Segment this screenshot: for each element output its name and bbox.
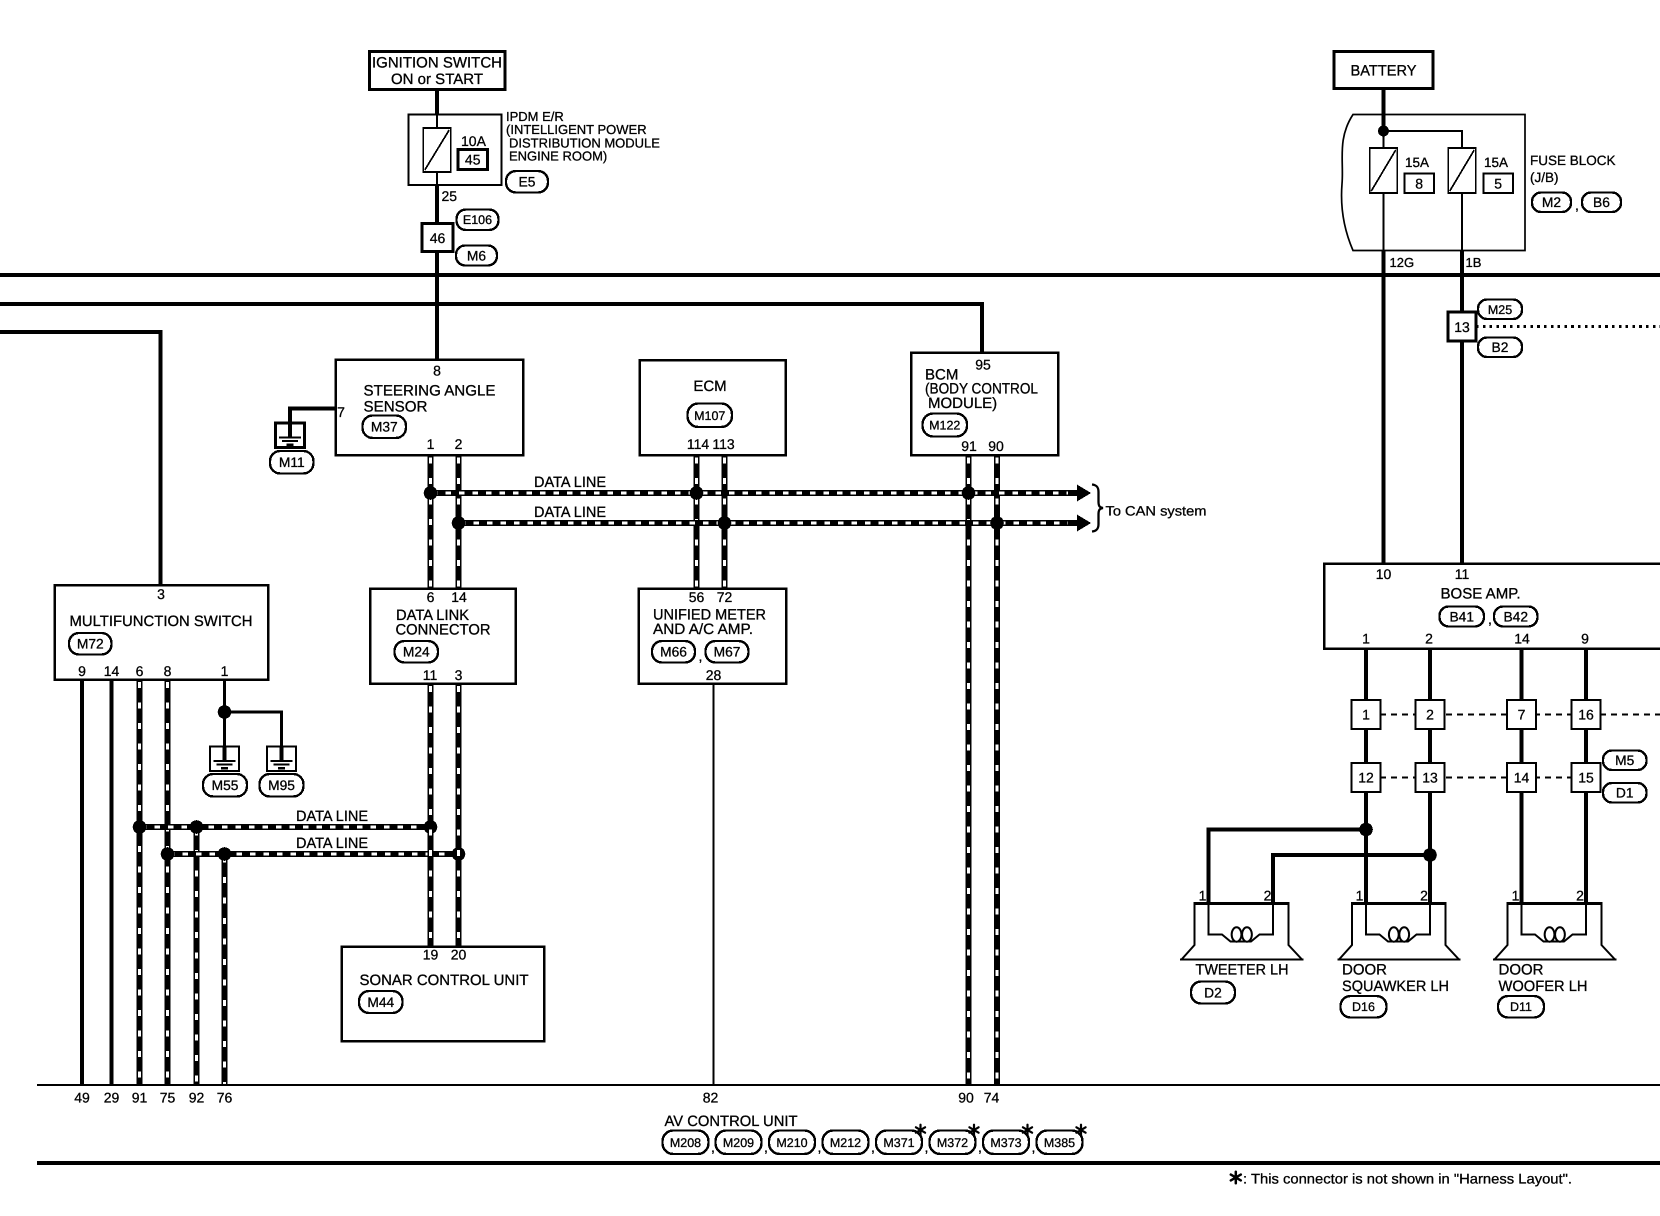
svg-text:M212: M212: [830, 1136, 861, 1150]
node: junction data line 1 / sensor pin 1: [424, 486, 438, 500]
svg-text:AND A/C AMP.: AND A/C AMP.: [653, 621, 753, 638]
wire: connector 12 vertical: [1364, 729, 1368, 763]
svg-text:90: 90: [988, 438, 1004, 454]
svg-text:To CAN system: To CAN system: [1106, 504, 1207, 519]
svg-text:8: 8: [164, 663, 172, 679]
wire (CAN): MFS pin 6 down to AV unit pin 91: [136, 680, 142, 1086]
wire (CAN): branch down to AV unit pin 92: [193, 827, 199, 1085]
svg-text:14: 14: [104, 663, 120, 679]
wire: BOSE pin 9 to connector 16: [1584, 649, 1588, 701]
svg-text:5: 5: [1494, 176, 1502, 192]
AV control unit top edge: [37, 1084, 1660, 1086]
wire: connector 14 vertical: [1519, 729, 1523, 763]
svg-text:2: 2: [1426, 707, 1434, 723]
connector B6: [1582, 193, 1621, 213]
connector M210: [769, 1131, 815, 1155]
wire (CAN) ECM pin 114 down: [693, 455, 699, 589]
wire (CAN) data line 2: [456, 520, 1078, 526]
svg-text:1: 1: [427, 436, 435, 452]
svg-text:,: ,: [818, 1139, 822, 1155]
svg-text:16: 16: [1578, 707, 1594, 723]
svg-text:14: 14: [1514, 631, 1530, 647]
wire: connector 15 to woofer pin 2: [1584, 792, 1588, 903]
svg-text:ENGINE ROOM): ENGINE ROOM): [509, 149, 607, 164]
node: data line 4 / pin 8 wire: [161, 847, 175, 861]
svg-text:DOOR: DOOR: [1499, 962, 1544, 979]
connector box 13: [1448, 312, 1476, 341]
svg-text:1: 1: [1512, 888, 1520, 904]
connector M2: [1532, 193, 1571, 213]
connector M212: [823, 1131, 869, 1155]
svg-text:CONNECTOR: CONNECTOR: [396, 622, 491, 639]
arrow to CAN system (line 2): [1077, 515, 1091, 532]
wire: fuse block 1B to BOSE AMP pin 11: [1460, 251, 1464, 565]
svg-text:1: 1: [1362, 631, 1370, 647]
svg-text:DATA LINE: DATA LINE: [534, 474, 606, 491]
svg-text:49: 49: [74, 1090, 90, 1106]
data link connector box M24: [370, 589, 516, 684]
svg-text:12G: 12G: [1390, 255, 1415, 270]
wire: MFS pin 1 to grounds: [223, 680, 226, 747]
svg-text:6: 6: [136, 663, 144, 679]
connector M372 (starred): [930, 1131, 976, 1155]
connector box 7 (row 1): [1507, 700, 1536, 729]
wire: MFS pin 9 to AV unit pin 49: [80, 680, 84, 1086]
BOSE AMP box B41/B42: [1324, 564, 1660, 649]
svg-text:15A: 15A: [1405, 155, 1429, 170]
multifunction switch box M72: [55, 585, 269, 680]
connector box 13 (row 2): [1416, 763, 1445, 792]
svg-text:M24: M24: [403, 645, 430, 660]
wire (thin) fuse 8 to pin 12G: [1383, 193, 1385, 251]
svg-text:M44: M44: [367, 995, 394, 1010]
svg-text:10: 10: [1376, 566, 1392, 582]
svg-text:DATA LINE: DATA LINE: [296, 835, 368, 852]
wire: BOSE pin 1 to connector 1: [1364, 649, 1368, 701]
svg-text:,: ,: [925, 1139, 929, 1155]
footnote: [1235, 1172, 1238, 1184]
svg-text:3: 3: [157, 586, 165, 602]
wire: connector 46 down to steering angle sensor pin 8: [435, 252, 439, 361]
connector box 2 (row 1): [1416, 700, 1445, 729]
ground M55: [210, 747, 239, 772]
svg-text:BATTERY: BATTERY: [1351, 63, 1417, 80]
connector M371 (starred): [876, 1131, 922, 1155]
svg-text:15A: 15A: [1484, 155, 1508, 170]
unified meter and A/C amp box M66/M67: [639, 589, 787, 684]
svg-text:TWEETER LH: TWEETER LH: [1196, 962, 1289, 979]
fuse block (J/B) outline with torn left edge: [1342, 115, 1525, 251]
svg-text:D16: D16: [1352, 1000, 1375, 1014]
connector M5: [1603, 751, 1647, 771]
svg-text:M210: M210: [776, 1136, 807, 1150]
wire (CAN) data line 1: [428, 490, 1078, 496]
wire: power feed bus to BCM pin 95: [0, 304, 982, 354]
svg-text:M11: M11: [279, 455, 305, 470]
svg-text:M371: M371: [883, 1136, 914, 1150]
wire: battery to fuse block: [1381, 89, 1385, 132]
node: tweeter pin 2 branch: [1423, 848, 1437, 862]
node: tweeter pin 1 branch: [1359, 823, 1373, 837]
svg-text:12: 12: [1358, 770, 1374, 786]
wire (CAN) BCM pin 91 down to AV unit pin 90: [965, 455, 971, 1085]
svg-text:74: 74: [984, 1090, 1000, 1106]
node: junction data line 2 / ECM pin 113: [718, 516, 732, 530]
svg-text:,: ,: [764, 1139, 768, 1155]
svg-text:BOSE AMP.: BOSE AMP.: [1441, 586, 1521, 603]
node: data line 4 / DLC pin 3 wire: [452, 847, 466, 861]
wire: IPDM pin 25 down to connector 46: [435, 185, 439, 224]
wire: connector 12 to tweeter branch / squawker pin 1: [1364, 792, 1368, 903]
wire: connector 15 vertical: [1584, 729, 1588, 763]
svg-text:DATA LINE: DATA LINE: [534, 504, 606, 521]
svg-text:D2: D2: [1204, 986, 1222, 1001]
node: data line 3 / pin 6 wire: [133, 820, 147, 834]
connector box 16 (row 1): [1572, 700, 1601, 729]
connector M208: [663, 1131, 709, 1155]
svg-text:91: 91: [961, 438, 977, 454]
svg-text:15: 15: [1578, 770, 1594, 786]
wire: fuse block 12G to BOSE AMP pin 10: [1381, 251, 1385, 565]
wire (thin) fuse 5 to pin 1B: [1461, 193, 1463, 251]
node: junction data line 2 / sensor pin 2: [452, 516, 466, 530]
svg-text:19: 19: [423, 947, 439, 963]
connector M373 (starred): [983, 1131, 1029, 1155]
svg-text:45: 45: [465, 152, 481, 168]
svg-text:SENSOR: SENSOR: [364, 399, 428, 416]
svg-text:,: ,: [871, 1139, 875, 1155]
wire: BOSE pin 2 to connector 2: [1428, 649, 1432, 701]
wire: unified meter pin 28 to AV unit pin 82: [712, 684, 714, 1086]
svg-text:13: 13: [1422, 770, 1438, 786]
svg-text:M122: M122: [929, 419, 960, 433]
wire (CAN): MFS pin 8 down to AV unit pin 75: [164, 680, 170, 1086]
connector E106: [457, 210, 499, 231]
svg-text:2: 2: [1576, 888, 1584, 904]
wire (thin) through IPDM fuse: [436, 115, 438, 186]
connector box 12 (row 2): [1352, 763, 1381, 792]
svg-text:1: 1: [1199, 888, 1207, 904]
svg-text:B2: B2: [1492, 340, 1509, 355]
svg-text:ON or START: ON or START: [391, 71, 483, 88]
svg-text:14: 14: [451, 589, 467, 605]
fuse 15A #5: [1448, 148, 1475, 193]
connector M385 (starred): [1037, 1131, 1083, 1155]
wire (CAN) data line 4: [165, 851, 461, 857]
svg-text:82: 82: [703, 1090, 719, 1106]
svg-text:6: 6: [427, 589, 435, 605]
connector box 15 (row 2): [1572, 763, 1601, 792]
ECM box M107: [640, 360, 786, 455]
wire (CAN) ECM pin 113 down: [721, 455, 727, 589]
svg-text:E106: E106: [463, 213, 492, 227]
connector M6: [456, 246, 497, 266]
wire (CAN) data line 3: [137, 824, 433, 830]
svg-text:MULTIFUNCTION SWITCH: MULTIFUNCTION SWITCH: [70, 613, 253, 630]
svg-text:M373: M373: [990, 1136, 1021, 1150]
ground M11: [275, 423, 304, 448]
wire: sensor pin 7 to ground: [290, 409, 336, 425]
svg-text:B41: B41: [1449, 610, 1474, 625]
node: data line 4 / pin 76 branch: [218, 847, 232, 861]
svg-text:DATA LINE: DATA LINE: [296, 808, 368, 825]
dashed tie line, connector row 1: [1380, 714, 1660, 716]
wire: ignition power bus (horizontal, full width): [0, 273, 1660, 277]
svg-text:76: 76: [217, 1090, 233, 1106]
wire (thin) to fuse 15A #8: [1383, 131, 1385, 148]
wire (CAN): DLC pin 3 down to sonar pin 20: [455, 684, 461, 947]
svg-text:B6: B6: [1593, 195, 1610, 210]
steering angle sensor box M37: [336, 360, 524, 456]
svg-text:90: 90: [958, 1090, 974, 1106]
node: ground junction: [218, 705, 232, 719]
svg-text:M107: M107: [694, 409, 725, 423]
wire: connector 14 to woofer pin 1: [1519, 792, 1523, 903]
node: data line 3 / pin 92 branch: [190, 820, 204, 834]
svg-text:3: 3: [455, 667, 463, 683]
svg-text:1: 1: [1356, 888, 1364, 904]
svg-text:11: 11: [1455, 566, 1470, 582]
IPDM E/R box: [409, 115, 502, 186]
svg-text:11: 11: [423, 667, 438, 683]
svg-text:20: 20: [451, 947, 467, 963]
dotted tie line from connector 13: [1476, 325, 1660, 328]
svg-text:M67: M67: [714, 645, 741, 660]
svg-text:M66: M66: [660, 645, 687, 660]
svg-text:2: 2: [1264, 888, 1272, 904]
svg-text:28: 28: [706, 667, 722, 683]
svg-text:2: 2: [1425, 631, 1433, 647]
connector D1: [1603, 783, 1647, 803]
wire: connector 13 vertical: [1428, 729, 1432, 763]
svg-text:STEERING ANGLE: STEERING ANGLE: [364, 383, 496, 400]
dashed tie line, connector row 2: [1380, 776, 1572, 778]
svg-text:1B: 1B: [1466, 255, 1482, 270]
svg-text:M95: M95: [268, 778, 295, 793]
wire: branch to tweeter pin 1: [1209, 830, 1367, 904]
svg-text:D1: D1: [1616, 786, 1634, 801]
connector B2: [1478, 338, 1522, 358]
wire: connector 13 to tweeter branch / squawker pin 2: [1428, 792, 1432, 903]
svg-text:M72: M72: [77, 637, 104, 652]
svg-text:M5: M5: [1615, 753, 1634, 768]
svg-text:7: 7: [337, 404, 345, 420]
svg-text:14: 14: [1514, 770, 1530, 786]
node: junction data line 1 / BCM pin 91: [962, 486, 976, 500]
wire (CAN) sensor pin 2 down: [455, 455, 461, 589]
connector E5: [506, 171, 548, 193]
connector M209: [716, 1131, 762, 1155]
wire (CAN): branch down to AV unit pin 76: [221, 854, 227, 1085]
node: junction data line 2 / BCM pin 90: [990, 516, 1004, 530]
wire: branch to tweeter pin 2: [1273, 855, 1430, 903]
svg-text:95: 95: [975, 357, 991, 373]
svg-text:,: ,: [1575, 197, 1579, 213]
BCM box M122: [911, 353, 1058, 456]
wire (CAN) sensor pin 1 down: [427, 455, 433, 589]
node: data line 3 / DLC pin 11 wire: [424, 820, 438, 834]
svg-text:MODULE): MODULE): [928, 395, 997, 412]
connector box 1 (row 1): [1352, 700, 1381, 729]
connector box 46: [422, 224, 453, 252]
ignition switch box: [370, 52, 506, 90]
svg-text:91: 91: [132, 1090, 148, 1106]
svg-text:M6: M6: [467, 249, 486, 264]
svg-text:FUSE BLOCK: FUSE BLOCK: [1530, 153, 1616, 168]
svg-text:114: 114: [687, 436, 710, 452]
svg-text:E5: E5: [519, 175, 536, 190]
connector box 14 (row 2): [1507, 763, 1536, 792]
wire (thin) branch to fuse 15A #5: [1384, 131, 1463, 148]
svg-text:9: 9: [1581, 631, 1589, 647]
svg-text:25: 25: [442, 188, 458, 204]
wire: MFS pin 14 to AV unit pin 29: [109, 680, 113, 1086]
node: junction data line 1 / ECM pin 114: [690, 486, 704, 500]
svg-text:46: 46: [430, 230, 446, 246]
svg-text:8: 8: [1415, 176, 1423, 192]
svg-text:10A: 10A: [461, 133, 487, 149]
svg-text:AV CONTROL UNIT: AV CONTROL UNIT: [665, 1113, 798, 1130]
svg-text:M208: M208: [670, 1136, 701, 1150]
svg-text:,: ,: [978, 1139, 982, 1155]
svg-text:: This connector is not shown: : This connector is not shown in "Harnes…: [1243, 1171, 1572, 1187]
svg-text:M209: M209: [723, 1136, 754, 1150]
node: battery feed junction: [1378, 126, 1389, 137]
brace to CAN system: [1092, 485, 1103, 532]
svg-text:1: 1: [221, 663, 229, 679]
svg-text:7: 7: [1518, 707, 1526, 723]
svg-text:92: 92: [189, 1090, 205, 1106]
sonar control unit box M44: [342, 947, 545, 1042]
wire (CAN) BCM pin 90 down to AV unit pin 74: [994, 455, 1000, 1085]
svg-text:56: 56: [689, 589, 705, 605]
arrow to CAN system (line 1): [1077, 485, 1091, 502]
AV control unit bottom edge: [37, 1161, 1660, 1165]
svg-text:75: 75: [160, 1090, 176, 1106]
svg-text:M385: M385: [1044, 1136, 1075, 1150]
ground M95: [267, 747, 296, 772]
svg-text:SQUAWKER LH: SQUAWKER LH: [1342, 978, 1449, 995]
svg-text:SONAR CONTROL UNIT: SONAR CONTROL UNIT: [360, 972, 529, 989]
svg-text:WOOFER LH: WOOFER LH: [1499, 978, 1588, 995]
svg-text:M55: M55: [212, 778, 239, 793]
svg-text:ECM: ECM: [693, 378, 726, 395]
svg-text:B42: B42: [1503, 610, 1528, 625]
svg-text:(J/B): (J/B): [1530, 170, 1559, 185]
svg-text:2: 2: [1420, 888, 1428, 904]
svg-text:,: ,: [1032, 1139, 1036, 1155]
svg-text:M25: M25: [1488, 303, 1512, 317]
fuse 15A #8: [1370, 148, 1397, 193]
fuse 10A #45: [423, 128, 450, 172]
svg-text:DOOR: DOOR: [1342, 962, 1387, 979]
svg-text:M37: M37: [371, 420, 398, 435]
svg-text:8: 8: [433, 363, 441, 379]
svg-text:D11: D11: [1510, 1000, 1532, 1014]
svg-text:IGNITION SWITCH: IGNITION SWITCH: [372, 55, 502, 72]
svg-text:9: 9: [78, 663, 86, 679]
battery box: [1334, 52, 1433, 89]
svg-text:29: 29: [104, 1090, 120, 1106]
svg-text:,: ,: [1488, 611, 1492, 627]
svg-text:M2: M2: [1542, 195, 1561, 210]
connector M25: [1478, 300, 1522, 320]
wire: power feed bus to multifunction switch pin 3: [0, 332, 161, 585]
svg-text:13: 13: [1454, 319, 1470, 335]
svg-text:1: 1: [1362, 707, 1370, 723]
svg-text:,: ,: [699, 648, 703, 664]
wire: BOSE pin 14 to connector 7: [1519, 649, 1523, 701]
svg-text:113: 113: [712, 436, 735, 452]
svg-text:72: 72: [717, 589, 733, 605]
wire: ignition switch to IPDM E/R: [435, 90, 439, 116]
wire (CAN): DLC pin 11 down to sonar pin 19: [427, 684, 433, 947]
svg-text:2: 2: [455, 436, 463, 452]
svg-text:M372: M372: [937, 1136, 968, 1150]
